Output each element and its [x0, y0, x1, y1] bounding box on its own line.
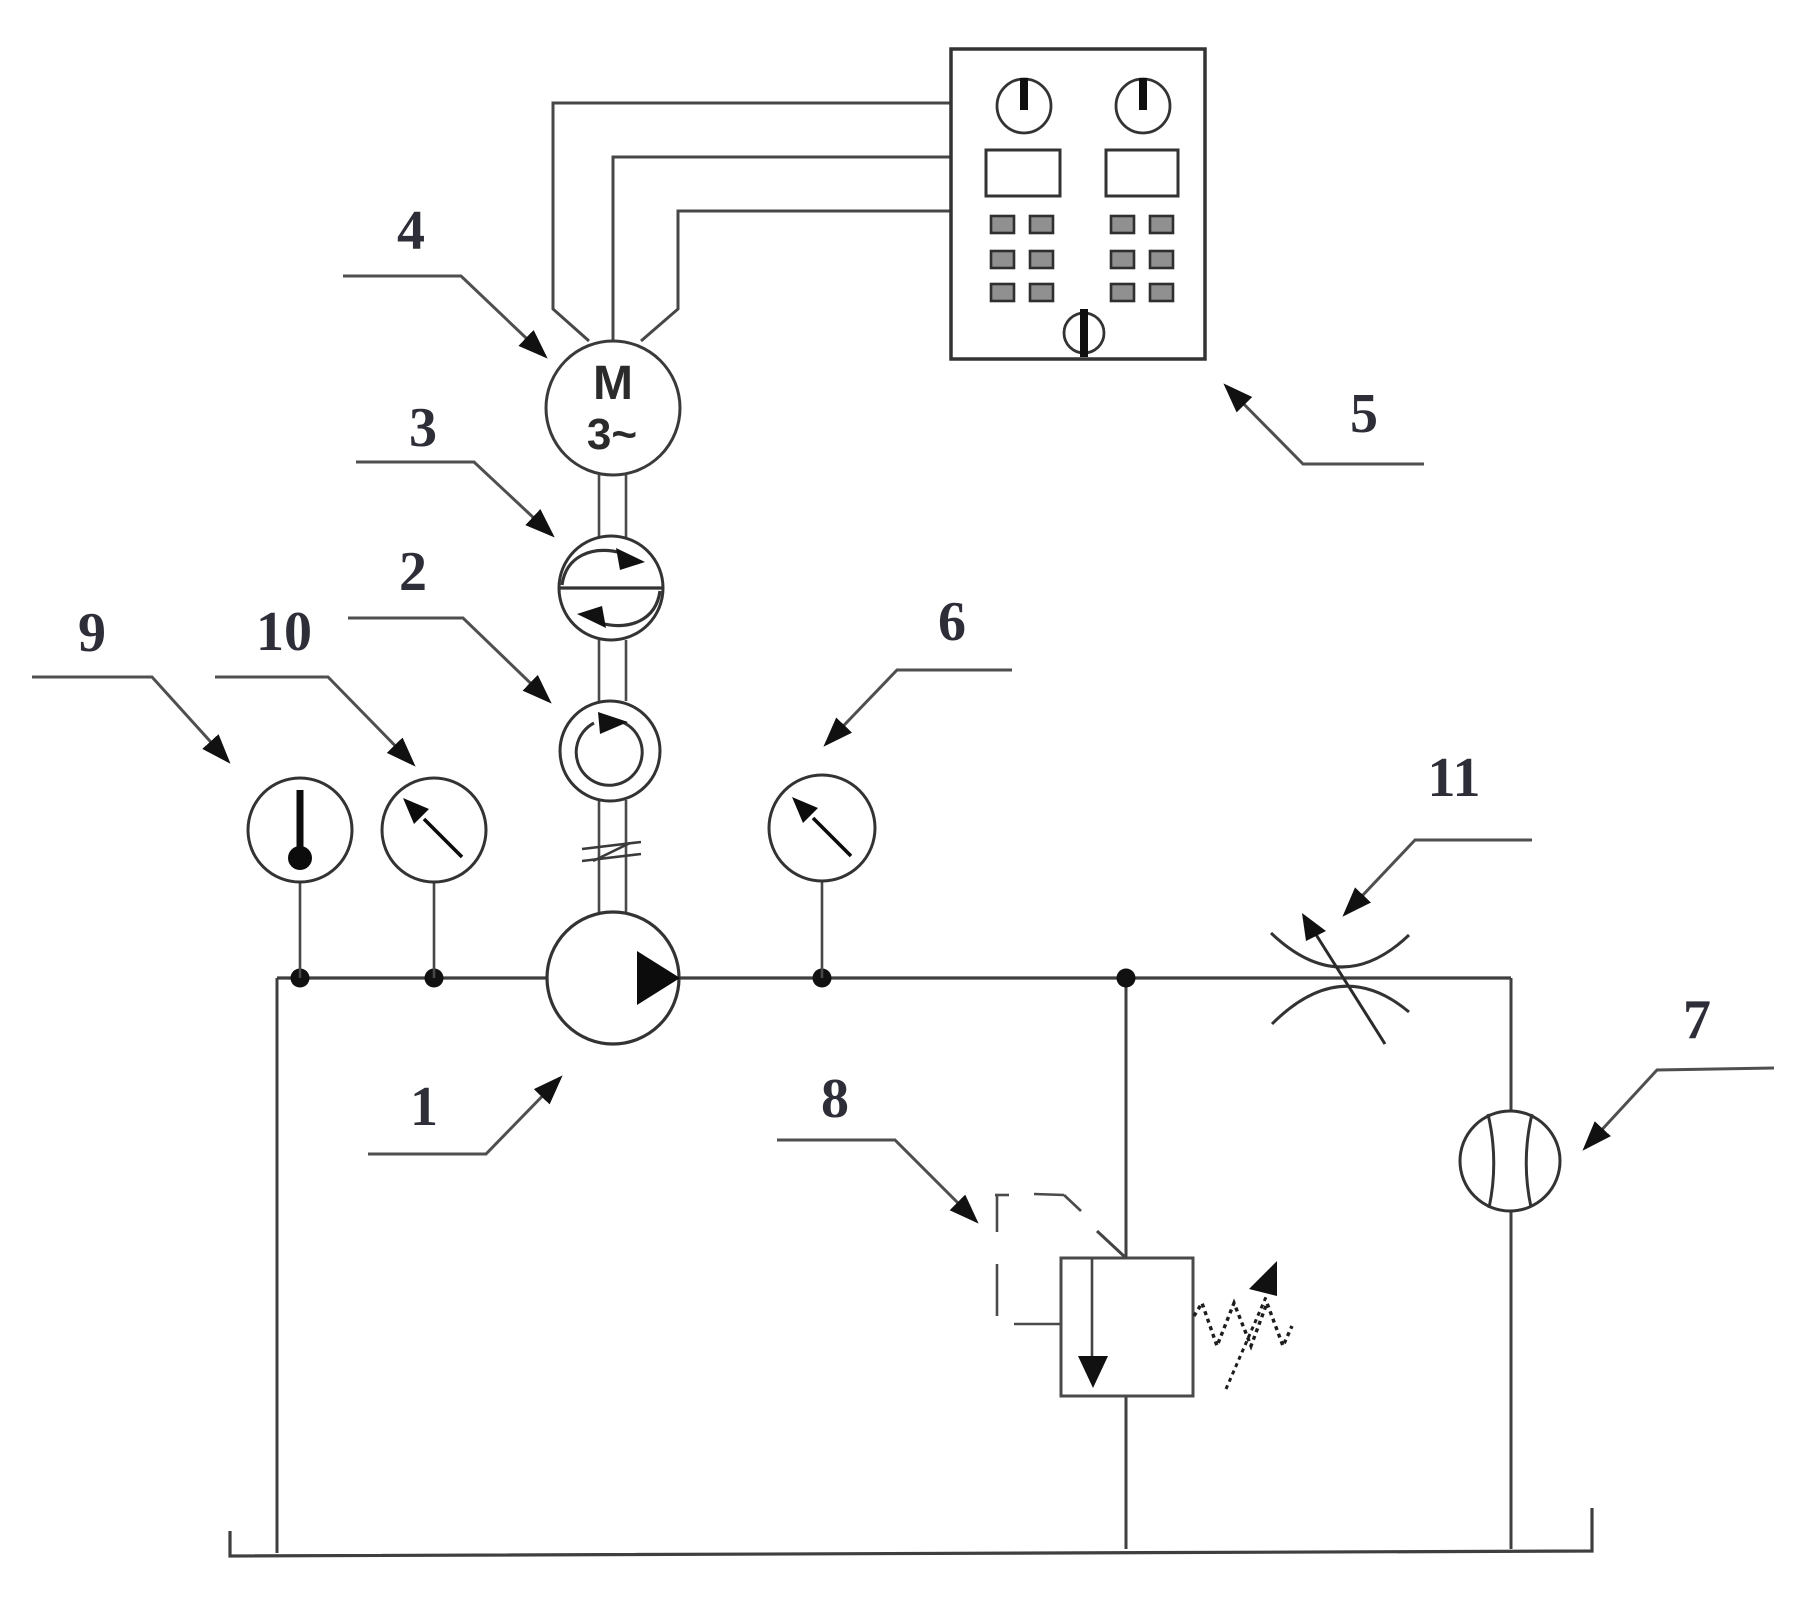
- svg-text:3~: 3~: [587, 410, 637, 459]
- thermometer stem: [299, 882, 302, 978]
- relief valve adjusting arrow: [1226, 1297, 1266, 1389]
- speed sensor (item 2): [560, 701, 660, 801]
- svg-text:2: 2: [399, 541, 427, 603]
- svg-text:5: 5: [1350, 383, 1378, 445]
- panel display right: [1106, 150, 1178, 196]
- shaft torque meter to speed sensor: [599, 640, 626, 701]
- svg-text:10: 10: [256, 601, 312, 663]
- left tank riser: [276, 978, 279, 1553]
- panel display left: [986, 150, 1060, 196]
- pressure gauge (item 6): [769, 775, 875, 881]
- relief valve internal flow arrow: [1091, 1258, 1094, 1357]
- shaft break mark: [582, 842, 641, 861]
- svg-text:M: M: [593, 357, 633, 410]
- right drop to flow meter: [1510, 978, 1513, 1549]
- drop to relief valve: [1125, 978, 1128, 1258]
- gauge 6 stem: [821, 881, 824, 978]
- throttle valve arcs (item 11): [1271, 933, 1409, 967]
- panel keypad right (6 buttons): [1111, 216, 1173, 301]
- junction node at gauge 6: [813, 969, 832, 988]
- svg-text:3: 3: [409, 397, 437, 459]
- torque meter (item 3): [559, 536, 663, 640]
- svg-text:4: 4: [397, 200, 425, 262]
- svg-text:7: 7: [1683, 989, 1711, 1051]
- pressure gauge (item 10): [382, 778, 486, 882]
- wire from panel to motor (right phase): [641, 211, 951, 341]
- tank bottom line: [230, 1508, 1592, 1556]
- pump (item 1): [547, 912, 679, 1044]
- control panel U5 enclosure: [951, 49, 1205, 359]
- svg-text:8: 8: [821, 1068, 849, 1130]
- junction node at gauge 10: [425, 969, 444, 988]
- wire from panel to motor (left phase): [553, 103, 951, 341]
- thermometer (item 9): [248, 778, 352, 882]
- junction node at relief valve branch: [1117, 969, 1136, 988]
- relief valve spring: [1194, 1303, 1292, 1346]
- panel knob left: [997, 79, 1051, 133]
- svg-text:9: 9: [78, 602, 106, 664]
- flow indicator (item 7): [1460, 1111, 1560, 1211]
- svg-text:6: 6: [938, 591, 966, 653]
- throttle valve adjusting arrow: [1315, 933, 1385, 1044]
- main pressure line: [277, 976, 1511, 979]
- shaft motor to torque meter: [599, 475, 626, 537]
- shaft speed sensor to pump: [599, 800, 626, 913]
- pilot line (dashed): [995, 1194, 1081, 1324]
- gauge 10 stem: [433, 882, 436, 978]
- panel keypad left (6 buttons): [991, 216, 1053, 301]
- junction node at thermometer: [291, 969, 310, 988]
- svg-text:1: 1: [410, 1076, 438, 1138]
- motor M1 (item 4): [546, 341, 680, 475]
- svg-text:11: 11: [1428, 747, 1481, 809]
- panel bottom knob: [1064, 313, 1104, 353]
- relief valve body (item 8): [1061, 1258, 1193, 1396]
- panel knob right: [1116, 79, 1170, 133]
- wire from panel to motor (middle phase): [613, 157, 951, 342]
- relief valve inlet diagonal: [1097, 1231, 1126, 1258]
